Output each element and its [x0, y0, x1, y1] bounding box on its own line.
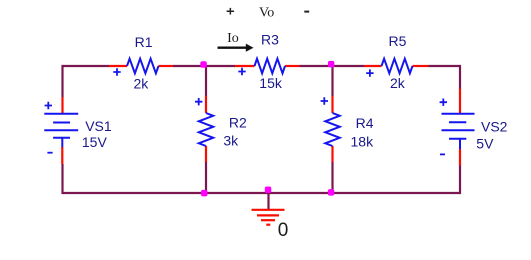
svg-text:3k: 3k — [223, 133, 239, 149]
svg-text:0: 0 — [278, 220, 289, 241]
svg-text:2k: 2k — [390, 75, 406, 91]
svg-text:18k: 18k — [351, 133, 375, 149]
svg-text:R4: R4 — [356, 115, 374, 131]
svg-text:Io: Io — [227, 31, 239, 46]
svg-text:5V: 5V — [476, 135, 494, 151]
svg-text:R1: R1 — [135, 34, 153, 50]
svg-text:Vo: Vo — [259, 6, 274, 21]
svg-text:15V: 15V — [82, 134, 108, 150]
svg-text:R3: R3 — [261, 32, 279, 48]
svg-text:VS1: VS1 — [85, 118, 112, 134]
svg-text:R5: R5 — [389, 33, 407, 49]
svg-text:R2: R2 — [229, 114, 247, 130]
svg-text:VS2: VS2 — [481, 118, 508, 134]
svg-text:15k: 15k — [259, 75, 283, 91]
svg-text:2k: 2k — [134, 75, 150, 91]
